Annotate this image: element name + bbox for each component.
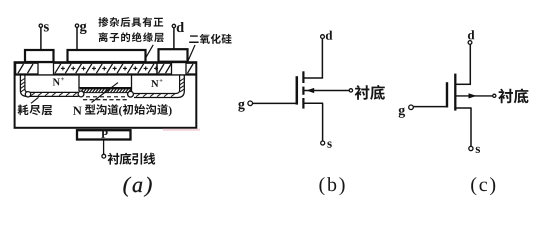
label N of channel text <box>73 107 82 115</box>
plus sign v 10 <box>155 66 157 70</box>
wire substrate lead (a) <box>103 140 105 154</box>
node substrate terminal (c) <box>493 94 496 97</box>
substrate arrow (b) pointing left <box>306 88 314 93</box>
channel hatch 10 <box>108 89 111 92</box>
positive-ion strip hatch 2 <box>65 64 71 73</box>
left tube dash 1 <box>31 93 35 96</box>
label substrate (c) <box>498 89 528 104</box>
oxide hatch left stroke 1 <box>18 64 24 73</box>
label N-type-channel <box>85 104 118 115</box>
depletion boundary left outer <box>20 76 78 97</box>
node g terminal (b) <box>248 101 253 106</box>
right depletion hatch 2 <box>180 82 184 85</box>
node d terminal (c) <box>468 41 472 45</box>
left tube dash 7 <box>73 93 77 96</box>
channel hatch 11 <box>111 89 114 92</box>
wire d lead (a) <box>173 28 175 50</box>
wire d lead (c) <box>469 44 471 84</box>
leader to N-channel label <box>92 83 119 103</box>
positive-ion strip hatch 9 <box>138 64 144 73</box>
right depletion hatch 4 <box>180 89 184 92</box>
substrate arrow (c) pointing right <box>469 93 477 98</box>
left tube dash 5 <box>59 93 63 96</box>
right tube dash 2 <box>143 94 147 97</box>
right tube dash 5 <box>164 94 168 97</box>
label d (a) <box>177 22 184 32</box>
plus sign v 7 <box>124 66 126 70</box>
left well right edge <box>78 76 80 92</box>
node d terminal (a) <box>172 24 175 27</box>
left tube dash 6 <box>66 93 70 96</box>
P substrate box <box>77 130 131 139</box>
channel hatch 6 <box>96 89 99 92</box>
channel hatch 3 <box>87 89 90 92</box>
channel hatch 7 <box>99 89 102 92</box>
label initial-channel <box>123 104 168 115</box>
channel bar (c) <box>454 74 456 111</box>
left depletion hatch 4 <box>21 89 25 92</box>
label s (b) <box>327 141 331 147</box>
leader to positive-ion oxide layer <box>137 45 153 73</box>
channel hatch 17 <box>129 89 132 92</box>
wire gate lead (c) <box>413 106 448 108</box>
under-channel dash row1 1 <box>86 96 90 98</box>
node substrate terminal (a) <box>102 154 106 158</box>
wire s lead (b) <box>322 103 324 141</box>
positive-ion oxide strip <box>54 63 158 74</box>
node s terminal (a) <box>39 24 42 27</box>
label substrate (b) <box>355 85 385 100</box>
node g terminal (c) <box>409 105 414 110</box>
label g (b) <box>238 101 244 111</box>
channel hatch 15 <box>123 89 126 92</box>
gate bar (c) <box>446 82 448 107</box>
initial-channel dashed line 1 <box>83 99 87 101</box>
depletion boundary left inner <box>25 76 79 93</box>
paren close initial channel <box>169 106 172 116</box>
right tube dash 4 <box>157 94 161 97</box>
paren open initial channel <box>119 106 122 116</box>
channel hatch 14 <box>120 89 123 92</box>
label line1 insulating-layer-with-positive-ions <box>98 17 163 27</box>
plus sign h 8 <box>133 67 137 69</box>
channel hatch 1 <box>81 89 84 92</box>
under-channel dash row1 6 <box>121 96 125 98</box>
positive-ion strip hatch 8 <box>127 64 133 73</box>
under-channel dash row1 4 <box>107 96 111 98</box>
left depletion hatch 3 <box>21 86 25 89</box>
plus sign h 9 <box>144 67 148 69</box>
label s (a) <box>44 24 49 31</box>
under-channel dash row1 3 <box>100 96 104 98</box>
oxide hatch left stroke 2 <box>28 64 34 73</box>
positive-ion strip hatch 1 <box>55 64 61 73</box>
wire drain stub (c) <box>456 83 472 85</box>
wire drain stub (b) <box>304 77 323 79</box>
node substrate terminal (b) <box>349 89 352 92</box>
drain metal electrode <box>159 49 188 62</box>
channel hatch 12 <box>114 89 117 92</box>
channel segment drain tick (b) <box>302 71 304 83</box>
oxide hatch B stroke 1 <box>188 64 194 73</box>
initial-channel dashed line 3 <box>96 99 100 101</box>
oxide hatch box B <box>186 63 196 74</box>
faint pink scan artifact <box>163 129 200 131</box>
channel hatch 2 <box>84 89 87 92</box>
depletion bulb channel right <box>128 91 134 97</box>
source metal electrode <box>25 50 54 62</box>
channel hatch 16 <box>126 89 129 92</box>
depletion boundary right inner <box>134 76 180 94</box>
positive-ion strip hatch 3 <box>76 64 82 73</box>
channel band top <box>80 88 131 90</box>
right depletion hatch 1 <box>180 79 184 82</box>
leader to depletion-layer label <box>31 97 39 103</box>
label plus of left N+ <box>61 77 64 80</box>
node s terminal (c) <box>469 146 473 150</box>
oxide hatch box left <box>16 63 38 74</box>
positive-ion strip hatch 7 <box>117 64 123 73</box>
device body outline <box>15 62 197 128</box>
caption (c) <box>471 177 495 195</box>
depletion boundary right outer <box>134 76 184 98</box>
caption (a) <box>123 177 151 197</box>
gate bar (b) <box>296 76 299 104</box>
plus sign h 7 <box>123 67 127 69</box>
wire s lead (a) <box>40 27 42 50</box>
gate metal electrode <box>68 50 146 62</box>
channel hatch 8 <box>102 89 105 92</box>
label depletion-layer <box>18 104 53 115</box>
channel hatch 9 <box>105 89 108 92</box>
initial-channel dashed line 4 <box>103 99 107 101</box>
label P substrate <box>101 130 108 138</box>
plus sign h 3 <box>82 67 86 69</box>
leader from silicon-dioxide label <box>186 45 195 66</box>
plus sign v 1 <box>62 66 64 70</box>
wire gate lead (b) <box>252 102 298 104</box>
oxide layer bottom boundary <box>15 74 197 76</box>
under-channel dash row1 5 <box>114 96 118 98</box>
depletion tube left end bulb <box>25 92 30 97</box>
label s (c) <box>476 147 480 153</box>
plus sign v 8 <box>134 66 136 70</box>
node d terminal (b) <box>321 35 325 39</box>
wire s lead (c) <box>470 108 472 147</box>
depletion bulb channel left <box>78 91 84 97</box>
plus sign h 6 <box>113 67 117 69</box>
label g (a) <box>80 23 87 34</box>
plus sign h 2 <box>71 67 75 69</box>
label N+ left well <box>53 79 60 86</box>
channel segment source tick (b) <box>302 98 304 109</box>
plus sign h 1 <box>61 67 65 69</box>
plus sign v 9 <box>145 66 147 70</box>
positive-ion strip hatch 10 <box>148 64 154 73</box>
right tube dash 3 <box>150 94 154 97</box>
plus sign h 5 <box>102 67 106 69</box>
positive-ion strip hatch 6 <box>107 64 113 73</box>
wire substrate stub (c) <box>456 95 493 97</box>
left tube dash 2 <box>38 93 42 96</box>
node g terminal (a) <box>75 24 78 27</box>
plus sign v 6 <box>114 66 116 70</box>
plus sign v 2 <box>72 66 74 70</box>
label N+ right well <box>151 80 158 87</box>
oxide hatch box A <box>157 63 172 74</box>
plus sign h 10 <box>154 67 158 69</box>
positive-ion strip hatch 5 <box>96 64 102 73</box>
channel hatch 5 <box>93 89 96 92</box>
label g (c) <box>399 108 405 118</box>
channel hatch 4 <box>90 89 93 92</box>
right tube dash 6 <box>171 94 175 97</box>
label substrate-lead-wire <box>108 153 156 165</box>
wire d lead (b) <box>321 39 323 79</box>
initial-channel dashed line 2 <box>90 99 94 101</box>
oxide hatch A stroke 2 <box>166 64 172 73</box>
left depletion hatch 2 <box>21 82 25 85</box>
channel band bottom <box>80 92 131 94</box>
label d (c) <box>468 30 475 39</box>
plus sign v 4 <box>93 66 95 70</box>
label plus of right N+ <box>160 79 163 82</box>
initial-channel dashed line 6 <box>116 99 120 101</box>
channel segment substrate tick (b) <box>302 87 304 95</box>
plus sign v 5 <box>103 66 105 70</box>
right well left edge <box>131 76 133 92</box>
label d (b) <box>326 31 333 40</box>
initial-channel dashed line 5 <box>109 99 113 101</box>
wire source stub (b) <box>304 102 323 104</box>
channel hatch 13 <box>117 89 120 92</box>
initial-channel dashed line 7 <box>123 99 127 101</box>
caption (b) <box>319 177 344 195</box>
wire source stub (c) <box>456 107 472 109</box>
wire g lead (a) <box>76 27 78 50</box>
right tube dash 1 <box>136 94 140 97</box>
left depletion hatch 1 <box>21 79 25 82</box>
left tube dash 4 <box>52 93 56 96</box>
under-channel dash row1 2 <box>93 96 97 98</box>
wire substrate stub (b) <box>304 90 349 92</box>
oxide hatch A stroke 1 <box>159 64 165 73</box>
node s terminal (b) <box>321 141 325 145</box>
right depletion hatch 3 <box>180 86 184 89</box>
positive-ion strip hatch 4 <box>86 64 92 73</box>
left tube dash 3 <box>45 93 49 96</box>
plus sign v 3 <box>83 66 85 70</box>
plus sign h 4 <box>92 67 96 69</box>
gate region box bottom <box>79 87 132 89</box>
label line2 insulating-layer-with-positive-ions <box>99 32 164 42</box>
label silicon-dioxide <box>189 34 231 44</box>
